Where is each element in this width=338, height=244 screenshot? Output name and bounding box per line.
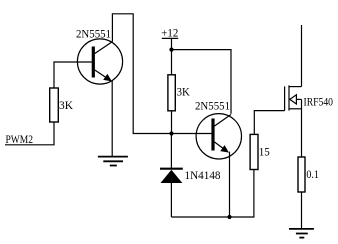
wire R2 bottom lead <box>171 111 173 134</box>
node junction dot on bottom rail <box>227 215 231 219</box>
wire base node down to diode <box>170 134 172 169</box>
node PWM2 input wire <box>5 122 54 145</box>
wire drain up <box>301 25 303 87</box>
svg-text:2N5551: 2N5551 <box>195 99 230 113</box>
transistor Q2 2N5551 (NPN) <box>196 114 241 159</box>
wire gate lead from 15 resistor to MOSFET gate <box>254 111 284 135</box>
svg-text:1N4148: 1N4148 <box>185 168 221 182</box>
transistor Q1 2N5551 (NPN) <box>77 39 122 84</box>
ground (bottom right) <box>289 229 314 238</box>
diode 1N4148 <box>160 169 183 183</box>
svg-text:PWM2: PWM2 <box>6 132 34 146</box>
resistor 3K #1 <box>50 88 59 122</box>
resistor 0.1 <box>298 157 305 192</box>
node junction dot at Q2 base <box>169 131 173 135</box>
wire Q2 emitter down to bottom rail <box>229 152 231 217</box>
svg-text:3K: 3K <box>177 84 190 98</box>
wire +12 rail to Q2 collector <box>172 50 232 114</box>
wire Q1 emitter down <box>111 81 113 157</box>
wire Q1 collector up and over to Q2 base rail <box>112 14 213 134</box>
svg-text:3K: 3K <box>59 98 73 112</box>
wire bottom rail <box>171 170 254 218</box>
wire 0.1 bottom lead to ground <box>301 192 303 229</box>
transistor U1 IRF540 (N-MOSFET) <box>285 85 302 110</box>
svg-text:+12: +12 <box>161 26 178 40</box>
svg-text:0.1: 0.1 <box>306 167 319 181</box>
wire R1 top lead to Q1 base <box>54 62 93 88</box>
node junction dot at +12 rail <box>169 48 173 52</box>
wire +12 down to R2 <box>171 38 173 74</box>
svg-text:IRF540: IRF540 <box>304 94 334 108</box>
resistor 15 <box>250 134 258 169</box>
wire source down to 0.1 resistor <box>301 109 303 157</box>
svg-text:15: 15 <box>259 144 270 158</box>
svg-text:2N5551: 2N5551 <box>76 27 111 41</box>
wire diode anode down to bottom rail <box>170 183 172 217</box>
resistor 3K #2 <box>168 75 175 111</box>
power +12 terminal <box>162 37 178 39</box>
ground (under Q1 emitter) <box>98 157 128 166</box>
